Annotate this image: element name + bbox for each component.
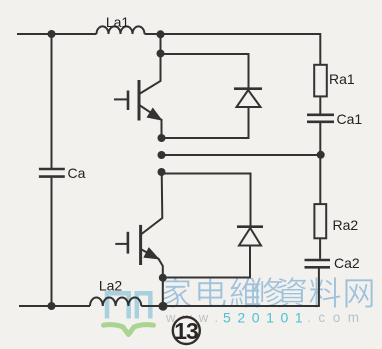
transistor Q2 emitter arrowhead bbox=[144, 248, 158, 259]
inductor La2 bbox=[90, 298, 141, 307]
svg-text:Ca2: Ca2 bbox=[334, 255, 360, 271]
node dot collector2/D2 bbox=[158, 168, 166, 176]
svg-text:.com: .com bbox=[307, 310, 367, 325]
node dot bottom-left junction bbox=[48, 302, 56, 310]
capacitor Ca bbox=[39, 169, 65, 177]
wire D2 bottom bbox=[164, 246, 251, 278]
transistor Q1 gate lead bbox=[114, 98, 127, 100]
wire top right segment bbox=[145, 33, 321, 35]
transistor Q1 collector lead bbox=[140, 53, 161, 94]
node dot collector/diode tap bbox=[157, 50, 165, 58]
diode D2 bbox=[237, 225, 263, 228]
node dot mid tap bbox=[158, 151, 166, 159]
node dot emitter1/D1 bbox=[158, 134, 166, 142]
transistor Q2 gate lead bbox=[115, 243, 127, 245]
wire Ra1 to Ca1 bbox=[319, 96, 321, 113]
watermark text 家电维修资料网 bbox=[161, 277, 372, 307]
transistor Q2 emitter bbox=[142, 250, 163, 307]
capacitor Ca2 bbox=[305, 260, 331, 267]
wire left vertical lower bbox=[51, 178, 53, 306]
wire left vertical upper bbox=[51, 34, 53, 168]
diode D1 bbox=[234, 87, 262, 90]
wire D1 bottom bbox=[162, 107, 249, 138]
wire mid to right (snubber tap) bbox=[162, 154, 321, 156]
transistor Q1 emitter arrowhead bbox=[147, 108, 161, 120]
transistor Q2 gate plate bbox=[127, 232, 130, 254]
watermark logo book (blue pages) bbox=[107, 293, 150, 318]
resistor Ra2 bbox=[314, 204, 326, 238]
node dot emitter2/D2 bottom bbox=[159, 274, 167, 282]
wire Ca1 down to Ra2 bbox=[319, 123, 321, 204]
node dot bottom-mid junction bbox=[159, 302, 168, 311]
wire right vertical upper bbox=[319, 33, 321, 65]
wire node to diode D2 top bbox=[162, 174, 251, 227]
svg-text:13: 13 bbox=[174, 318, 198, 344]
node dot top-mid junction bbox=[157, 30, 165, 38]
svg-text:La2: La2 bbox=[99, 278, 123, 294]
node dot top-left junction bbox=[48, 30, 56, 38]
wire bottom right segment bbox=[141, 305, 320, 307]
wire Ra2 to Ca2 bbox=[319, 238, 321, 258]
figure number circle 13 bbox=[173, 317, 200, 344]
inductor La1 bbox=[97, 26, 145, 34]
wire bottom left segment bbox=[19, 305, 90, 307]
transistor Q1 emitter bbox=[140, 106, 162, 139]
transistor Q2 body bar bbox=[139, 225, 142, 265]
wire top left segment bbox=[17, 33, 97, 35]
transistor Q1 body bar bbox=[138, 80, 141, 121]
wire node to diode D1 top bbox=[161, 54, 249, 89]
resistor Ra1 bbox=[314, 65, 327, 97]
transistor Q2 collector lead bbox=[142, 172, 163, 234]
svg-text:La1: La1 bbox=[106, 14, 130, 30]
watermark logo swoosh (green) bbox=[104, 325, 154, 335]
svg-text:Ra2: Ra2 bbox=[333, 217, 359, 233]
wire node top to collector node bbox=[160, 34, 162, 53]
svg-text:Ca1: Ca1 bbox=[337, 111, 363, 127]
node dot right snubber junction bbox=[317, 151, 325, 159]
svg-text:Ra1: Ra1 bbox=[329, 71, 355, 87]
transistor Q1 gate plate bbox=[127, 91, 130, 111]
svg-text:Ca: Ca bbox=[68, 165, 86, 181]
wire Ca2 down to bottom bbox=[318, 269, 320, 307]
capacitor Ca1 bbox=[307, 115, 334, 122]
svg-text:520101: 520101 bbox=[223, 310, 309, 326]
